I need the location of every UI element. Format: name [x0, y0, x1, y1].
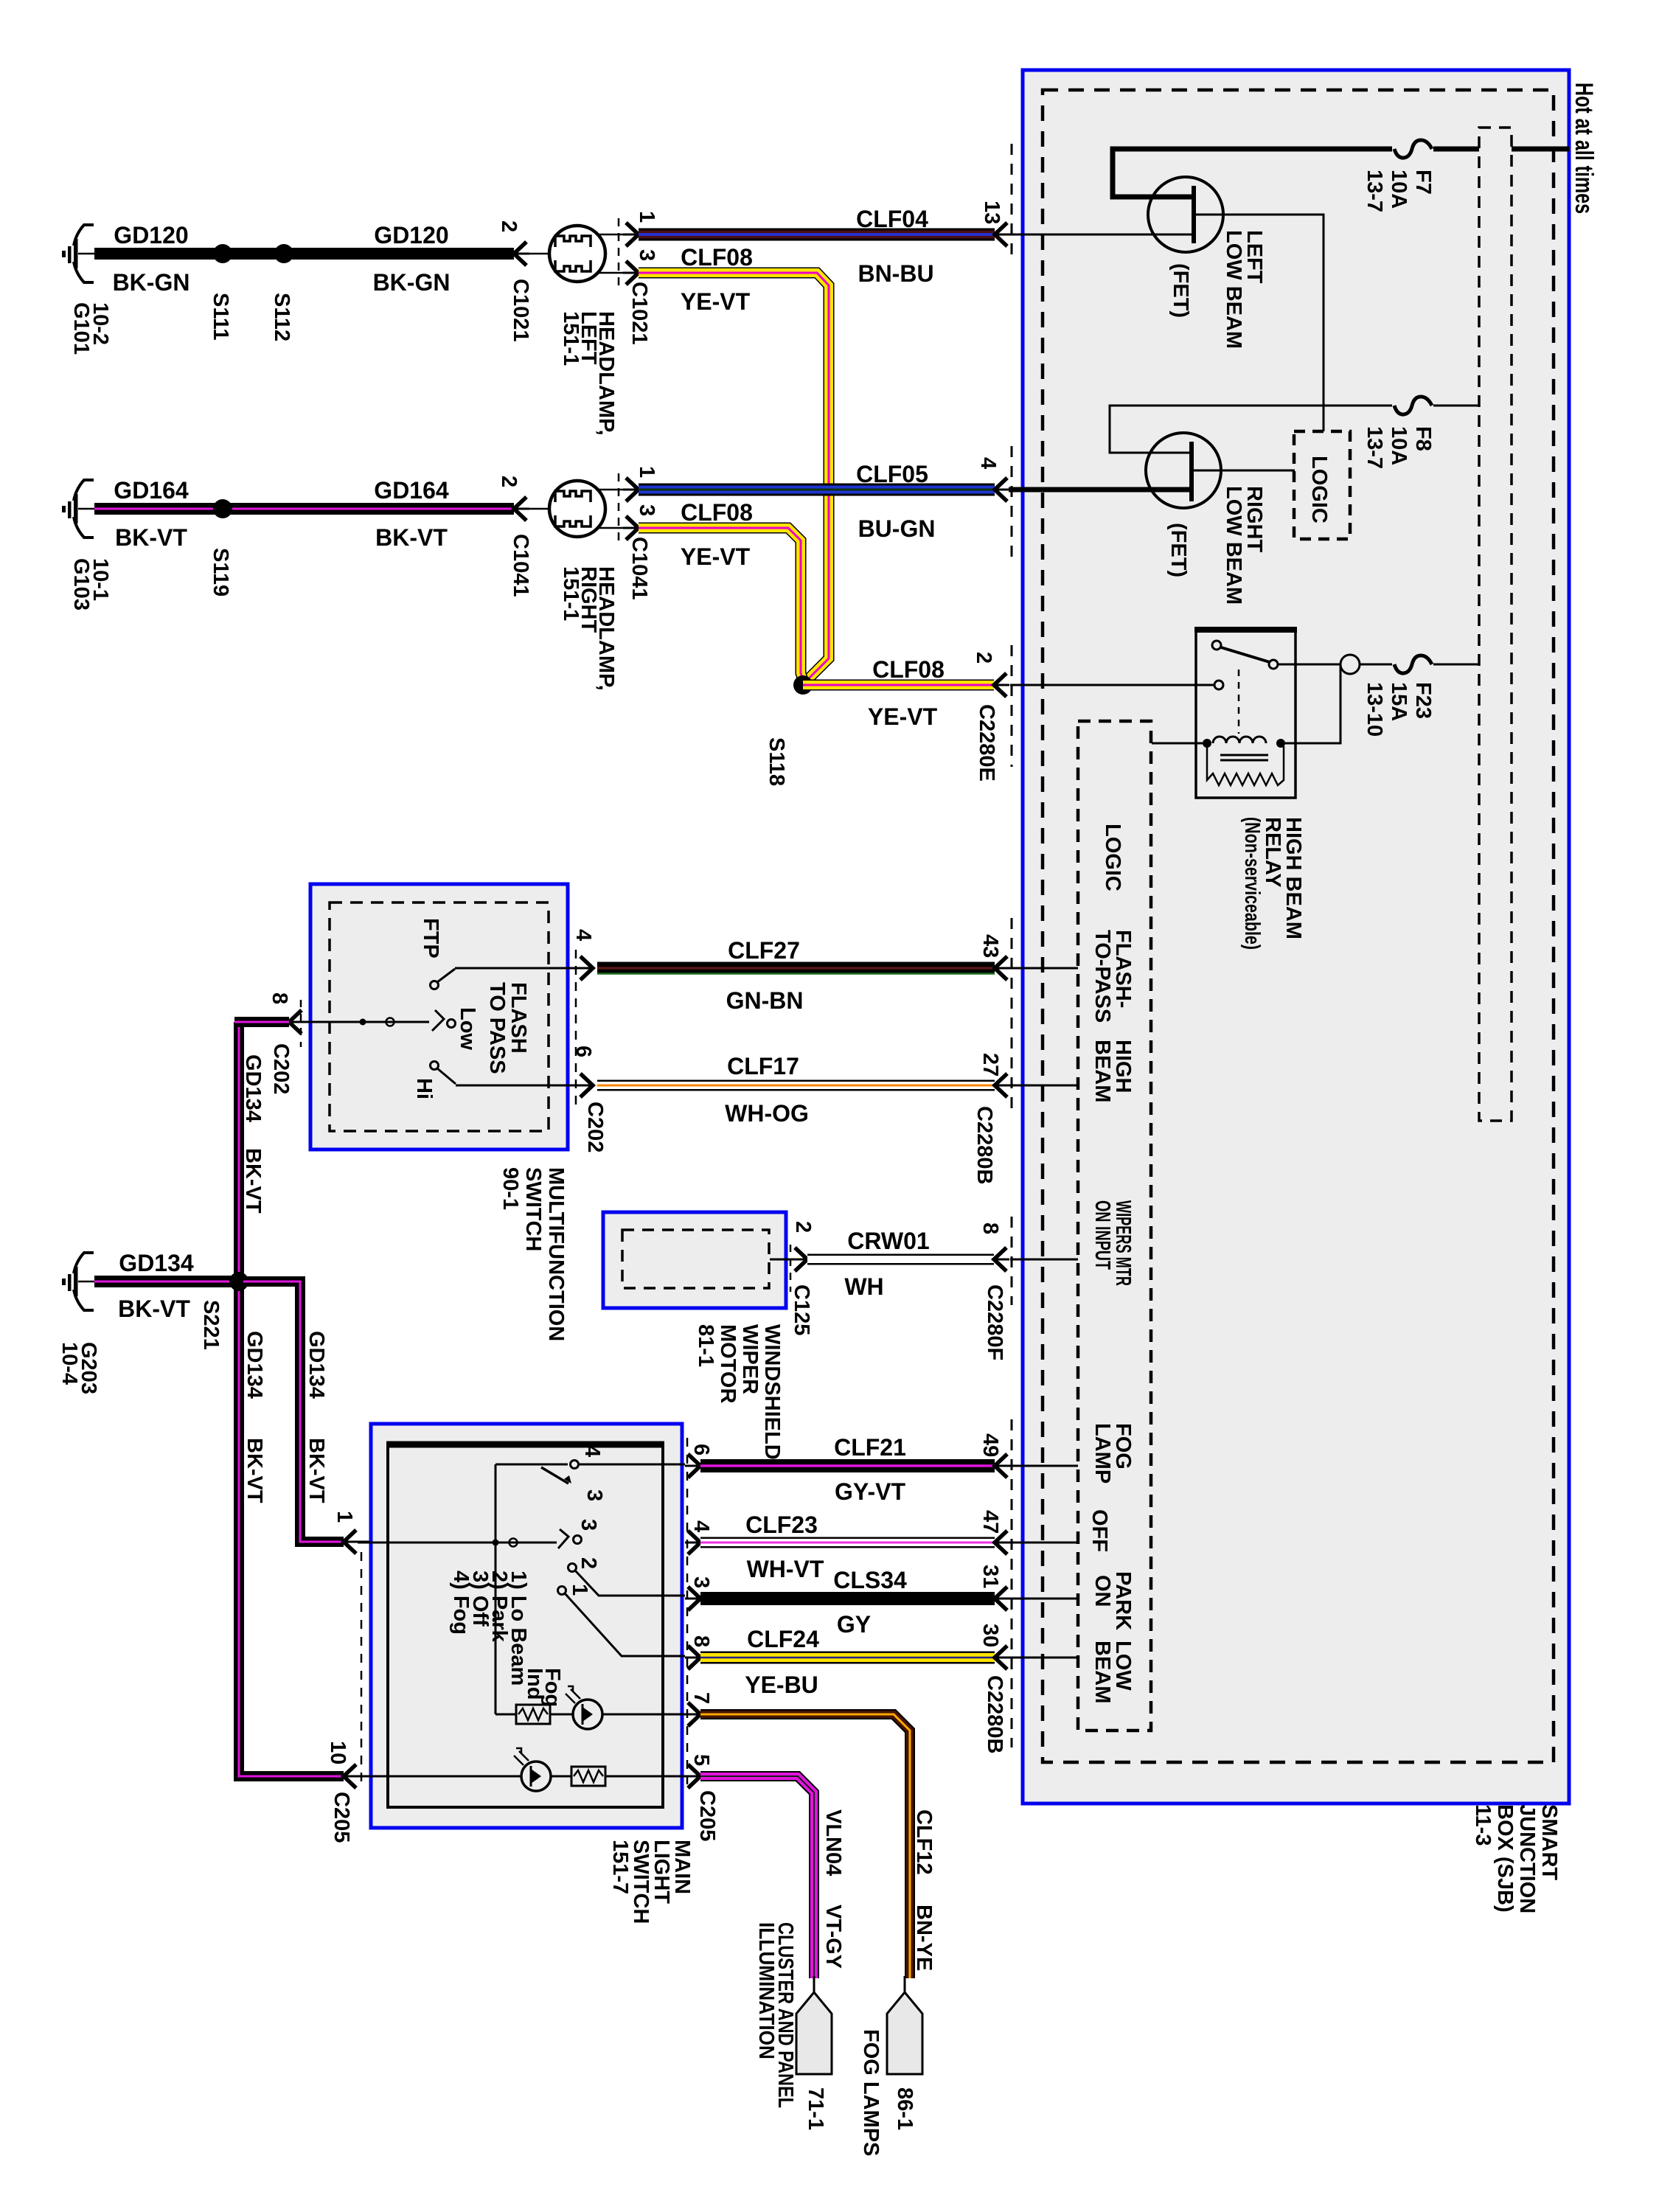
connector arrow main light switch pin 5: [685, 1764, 700, 1788]
svg-text:2: 2: [497, 476, 521, 487]
svg-text:C205: C205: [695, 1790, 719, 1841]
connector cluster and panel illumination: [754, 1922, 832, 2130]
wire CLF21 GY-VT: [700, 1434, 995, 1505]
wire CLF27 GN-BN: [597, 937, 995, 1014]
connector arrow main light switch pin 3: [685, 1587, 700, 1610]
connector arrow multifunction pin 8: [268, 992, 305, 1094]
svg-text:GD120: GD120: [114, 222, 188, 248]
wire CLF24 YE-BU: [700, 1626, 995, 1698]
headlamp right bulb: [549, 466, 658, 691]
svg-text:BN-BU: BN-BU: [858, 260, 933, 287]
svg-text:13-10: 13-10: [1363, 682, 1386, 737]
label SMART JUNCTION BOX (SJB) 11-3: [1471, 1804, 1561, 1913]
multifunction switch common (pin 8): [302, 1007, 479, 1050]
svg-text:10A: 10A: [1387, 426, 1411, 465]
svg-text:3: 3: [689, 1576, 713, 1588]
svg-text:CLF04: CLF04: [856, 206, 928, 232]
svg-text:ON: ON: [1091, 1575, 1114, 1607]
svg-text:Hi: Hi: [412, 1078, 436, 1099]
svg-text:10-1: 10-1: [88, 558, 112, 601]
FTP contact: [419, 918, 580, 990]
svg-text:11-3: 11-3: [1471, 1804, 1495, 1846]
connector arrow headlamp right pin 1: [623, 478, 639, 501]
SJB outer dashed boundary: [1043, 90, 1554, 1762]
splice S221: [199, 1272, 248, 1350]
svg-text:LOGIC: LOGIC: [1101, 824, 1124, 891]
svg-text:27: 27: [978, 1053, 1002, 1077]
svg-text:WH: WH: [844, 1273, 883, 1300]
fuse F8: [1363, 397, 1435, 469]
svg-text:BEAM: BEAM: [1091, 1040, 1114, 1102]
fog switch contact 4: [495, 1445, 685, 1714]
svg-text:LAMP: LAMP: [1091, 1423, 1114, 1484]
svg-text:71-1: 71-1: [804, 2087, 827, 2130]
svg-text:F23: F23: [1411, 682, 1435, 719]
svg-text:151-7: 151-7: [608, 1840, 632, 1894]
connector dashes C205 left: [361, 1552, 363, 1788]
svg-text:WIPER: WIPER: [738, 1324, 762, 1394]
svg-text:JUNCTION: JUNCTION: [1515, 1804, 1539, 1913]
svg-text:CLF24: CLF24: [747, 1626, 819, 1652]
svg-text:15A: 15A: [1387, 682, 1411, 721]
svg-text:CLF23: CLF23: [745, 1512, 818, 1538]
ground G103: [62, 480, 112, 611]
connector arrow headlamp right pin 3: [623, 516, 639, 540]
panel illumination lamp: [358, 1748, 685, 1791]
svg-text:YE-VT: YE-VT: [681, 288, 751, 315]
svg-text:81-1: 81-1: [694, 1324, 717, 1367]
svg-text:10A: 10A: [1387, 170, 1411, 209]
svg-text:8: 8: [268, 992, 291, 1004]
svg-text:CLF17: CLF17: [727, 1053, 799, 1079]
svg-text:LOGIC: LOGIC: [1307, 456, 1331, 524]
svg-text:VLN04: VLN04: [821, 1809, 845, 1876]
svg-text:4: 4: [689, 1520, 713, 1532]
svg-text:ILLUMINATION: ILLUMINATION: [754, 1922, 778, 2059]
logic box tall: [1078, 721, 1151, 1731]
svg-text:C1041: C1041: [509, 534, 532, 597]
svg-text:BK-VT: BK-VT: [241, 1148, 265, 1214]
wires from SJB pins to logic box: [1010, 968, 1078, 1658]
svg-text:C2280F: C2280F: [983, 1284, 1006, 1360]
svg-text:F8: F8: [1411, 426, 1435, 451]
svg-text:1: 1: [635, 466, 658, 478]
svg-text:MOTOR: MOTOR: [716, 1324, 740, 1403]
svg-text:2: 2: [972, 652, 995, 664]
svg-text:GY-VT: GY-VT: [835, 1478, 905, 1505]
svg-text:4: 4: [976, 457, 1000, 469]
wire: F8 feed: [1110, 406, 1479, 453]
connector arrow C1041 pin 2: [497, 476, 549, 597]
svg-text:C1021: C1021: [509, 279, 532, 341]
svg-text:WH-OG: WH-OG: [725, 1100, 809, 1127]
svg-text:4: 4: [580, 1445, 604, 1457]
wire CLF05 BU-GN: [639, 461, 995, 542]
splice S119: [209, 499, 232, 597]
svg-text:1: 1: [635, 211, 658, 223]
svg-text:BOX (SJB): BOX (SJB): [1493, 1804, 1517, 1913]
svg-text:3: 3: [635, 504, 658, 516]
svg-text:CLF12: CLF12: [912, 1809, 936, 1875]
label Hot at all times: [1570, 83, 1598, 214]
splice S111: [209, 244, 232, 341]
svg-text:YE-BU: YE-BU: [745, 1672, 818, 1698]
svg-text:CLF27: CLF27: [728, 937, 800, 964]
wire CLF23 WH-VT: [700, 1512, 995, 1582]
transistor right low beam FET: [1146, 433, 1295, 605]
wire CLF08 YE-VT to C2280E: [803, 656, 994, 730]
connector arrow headlamp left pin 3: [623, 261, 639, 285]
svg-text:4) Fog: 4) Fog: [449, 1571, 473, 1635]
splice S112: [270, 244, 293, 341]
wire GD134 BK-VT branch to main light switch pin 1: [243, 1281, 344, 1542]
svg-text:(Non-serviceable): (Non-serviceable): [1240, 817, 1264, 950]
svg-text:WH-VT: WH-VT: [747, 1556, 824, 1582]
svg-text:GD164: GD164: [114, 477, 189, 504]
svg-text:13: 13: [980, 201, 1004, 224]
svg-text:CLF08: CLF08: [872, 656, 945, 683]
svg-text:BK-VT: BK-VT: [375, 524, 448, 551]
svg-text:(FET): (FET): [1166, 523, 1190, 577]
svg-text:Ind: Ind: [523, 1668, 546, 1700]
SJB internal bus bar (dashed): [1479, 128, 1512, 1121]
svg-text:86-1: 86-1: [893, 2087, 917, 2130]
svg-text:C2280E: C2280E: [975, 704, 998, 782]
svg-text:C125: C125: [790, 1284, 813, 1335]
multifunction switch box: [310, 884, 568, 1341]
svg-text:C202: C202: [583, 1102, 607, 1152]
wire CLF17 WH-OG: [597, 1053, 995, 1127]
connector dashes C205 right: [686, 1438, 689, 1784]
high beam relay box: [1194, 629, 1305, 950]
svg-text:8: 8: [978, 1222, 1002, 1234]
wire CLF12 BN-YE: [700, 1714, 936, 1978]
svg-text:TO PASS: TO PASS: [485, 982, 509, 1074]
svg-text:Low: Low: [456, 1007, 479, 1050]
connector arrow main light switch pin 1: [333, 1511, 388, 1554]
svg-text:GY: GY: [837, 1611, 871, 1638]
svg-text:30: 30: [978, 1624, 1002, 1647]
svg-text:FLASH: FLASH: [507, 982, 530, 1054]
svg-text:C2280B: C2280B: [983, 1675, 1006, 1753]
connector arrow multifunction pin 4: [571, 929, 595, 980]
connector arrow SJB pin 4: [995, 478, 1010, 501]
svg-text:OFF: OFF: [1088, 1509, 1111, 1552]
svg-text:CLF05: CLF05: [856, 461, 928, 487]
connector arrow headlamp left pin 1: [623, 223, 639, 246]
svg-text:6: 6: [689, 1444, 713, 1455]
wire CLF08 YE-VT from right headlamp pin 3: [639, 499, 803, 680]
fuse F23: [1363, 655, 1435, 737]
svg-text:F7: F7: [1411, 170, 1435, 195]
connector arrow main light switch pin 10: [326, 1741, 359, 1843]
svg-text:C202: C202: [269, 1043, 293, 1094]
svg-text:CLF08: CLF08: [681, 499, 753, 526]
wire GD120 BK-GN: [94, 222, 514, 296]
main light switch right pin labels: [689, 1444, 719, 1841]
main light switch box: [371, 1424, 694, 1924]
connector arrow multifunction pin 6: [571, 1046, 607, 1152]
svg-text:7: 7: [689, 1692, 713, 1704]
svg-text:1: 1: [333, 1511, 356, 1523]
Hi contact: [412, 1062, 580, 1100]
svg-text:5: 5: [689, 1754, 713, 1766]
svg-text:GD134: GD134: [305, 1331, 328, 1399]
svg-text:GD120: GD120: [374, 222, 448, 248]
transistor left low beam FET: [1148, 177, 1324, 431]
svg-text:49: 49: [978, 1433, 1002, 1457]
svg-text:GN-BN: GN-BN: [726, 987, 804, 1014]
wire GD134 BK-VT to main light switch pin 10: [239, 1771, 344, 1776]
svg-text:43: 43: [978, 934, 1002, 958]
svg-text:S119: S119: [209, 548, 232, 597]
Smart Junction Box outer blue box: [1023, 70, 1569, 1804]
connector arrow main light switch pin 4: [685, 1531, 700, 1554]
connector arrow main light switch pin 7: [685, 1703, 700, 1726]
wire CLF04 BN-BU: [639, 206, 995, 287]
ground G203: [58, 1253, 100, 1394]
svg-text:WINDSHIELD: WINDSHIELD: [760, 1324, 784, 1460]
svg-text:BK-VT: BK-VT: [305, 1438, 328, 1503]
svg-text:BK-GN: BK-GN: [113, 269, 190, 296]
connector arrow C2280E pin 2: [994, 673, 1009, 697]
svg-text:C205: C205: [330, 1792, 353, 1843]
svg-text:151-1: 151-1: [559, 566, 582, 621]
svg-text:VT-GY: VT-GY: [821, 1905, 845, 1969]
svg-text:10: 10: [326, 1741, 349, 1764]
svg-text:FOG LAMPS: FOG LAMPS: [859, 2029, 883, 2156]
svg-text:TO-PASS: TO-PASS: [1091, 930, 1114, 1023]
svg-text:3: 3: [582, 1489, 606, 1501]
ground G101: [62, 225, 112, 355]
svg-text:13-7: 13-7: [1363, 170, 1386, 212]
splice S118: [765, 675, 813, 786]
wire GD164 BK-VT: [94, 477, 514, 551]
connector arrow main light switch pin 8: [685, 1646, 700, 1669]
connector arrow SJB pin 13: [995, 223, 1010, 246]
svg-text:BEAM: BEAM: [1091, 1641, 1114, 1703]
svg-text:SMART: SMART: [1537, 1804, 1561, 1880]
main switch common contacts: [358, 1519, 685, 1656]
connector fog lamps: [859, 1976, 922, 2156]
svg-text:S111: S111: [209, 293, 232, 341]
connector arrow SJB pin 27: [995, 1074, 1010, 1097]
svg-text:GD164: GD164: [374, 477, 449, 504]
svg-text:S118: S118: [765, 737, 788, 786]
connector arrow SJB pin 43: [995, 956, 1010, 980]
wire CRW01 WH: [807, 1228, 994, 1300]
svg-text:LOW BEAM: LOW BEAM: [1222, 230, 1245, 349]
wire GD134 BK-VT ground run: [94, 1250, 239, 1322]
SJB pin number and connector labels: [972, 201, 1006, 1753]
svg-text:GD134: GD134: [119, 1250, 194, 1276]
fuse F7: [1363, 140, 1435, 212]
svg-text:GD134: GD134: [243, 1331, 266, 1399]
svg-text:8: 8: [689, 1635, 713, 1647]
svg-text:C1041: C1041: [627, 537, 651, 599]
svg-text:6: 6: [571, 1046, 595, 1057]
connector arrow SJB pin 49: [995, 1454, 1010, 1478]
wire: relay coil to logic: [1152, 742, 1203, 745]
svg-text:BK-VT: BK-VT: [118, 1295, 190, 1322]
wire VLN04 VT-GY: [700, 1776, 845, 1978]
svg-text:LOW BEAM: LOW BEAM: [1222, 486, 1245, 605]
svg-text:SWITCH: SWITCH: [521, 1167, 545, 1251]
svg-text:2: 2: [577, 1557, 600, 1569]
svg-text:Hot at all times: Hot at all times: [1570, 83, 1598, 214]
svg-text:BN-YE: BN-YE: [912, 1905, 936, 1971]
svg-text:FTP: FTP: [419, 918, 442, 959]
svg-text:BK-GN: BK-GN: [373, 269, 451, 296]
logic box small: [1294, 431, 1350, 539]
wire: battery feed to F7 (hot at all times): [1113, 149, 1569, 197]
wire GD134 BK-VT trunk vertical: [239, 1022, 266, 1776]
svg-text:151-1: 151-1: [559, 311, 582, 366]
svg-text:13-7: 13-7: [1363, 426, 1386, 469]
connector arrow SJB pin 8 C2280F: [994, 1248, 1009, 1271]
svg-text:C1021: C1021: [627, 282, 651, 344]
svg-text:CLS34: CLS34: [833, 1567, 907, 1593]
svg-text:BU-GN: BU-GN: [858, 515, 936, 542]
svg-text:3: 3: [577, 1519, 600, 1531]
svg-text:C2280B: C2280B: [973, 1106, 996, 1184]
wire CLF08 YE-VT from left headlamp pin 3: [639, 244, 829, 684]
svg-text:S112: S112: [270, 293, 293, 341]
svg-text:BK-VT: BK-VT: [243, 1438, 266, 1503]
connector dashes C202: [301, 950, 576, 1106]
svg-text:BK-VT: BK-VT: [115, 524, 187, 551]
wire CLS34 GY: [700, 1567, 995, 1638]
wire: FET1 output to pin 13: [1009, 234, 1193, 236]
svg-text:ON INPUT: ON INPUT: [1091, 1200, 1114, 1270]
svg-text:4: 4: [571, 929, 595, 941]
connector arrow SJB pin 31: [995, 1587, 1010, 1610]
svg-text:90-1: 90-1: [498, 1167, 522, 1210]
svg-text:MULTIFUNCTION: MULTIFUNCTION: [544, 1167, 568, 1341]
svg-text:GD134: GD134: [241, 1054, 265, 1122]
headlamp left bulb: [549, 211, 658, 436]
connector arrow main light switch pin 6: [685, 1454, 700, 1478]
svg-text:YE-VT: YE-VT: [681, 543, 751, 570]
svg-text:10-2: 10-2: [88, 302, 112, 345]
svg-text:2: 2: [497, 220, 521, 232]
svg-text:CLF08: CLF08: [681, 244, 753, 271]
connector arrow wiper pin 2: [770, 1221, 815, 1335]
connector face dashed line C2280: [1011, 144, 1013, 1747]
svg-text:CLF21: CLF21: [834, 1434, 906, 1461]
wire: relay switch to C2280E pin 2: [1010, 684, 1214, 686]
fog indicator: [495, 1668, 685, 1729]
main light switch position list: [449, 1571, 530, 1686]
svg-text:2: 2: [791, 1221, 815, 1233]
svg-text:10-4: 10-4: [58, 1342, 81, 1385]
svg-text:31: 31: [978, 1565, 1002, 1588]
wire: relay switch feed through F23 to bus: [1278, 655, 1479, 743]
wire: FET2 output to pin 4: [1009, 487, 1191, 493]
svg-text:(FET): (FET): [1169, 263, 1192, 318]
svg-text:47: 47: [978, 1510, 1002, 1534]
connector arrow SJB pin 47: [995, 1531, 1010, 1554]
svg-text:S221: S221: [199, 1300, 223, 1350]
svg-text:YE-VT: YE-VT: [868, 703, 938, 730]
connector arrow C1021 pin 2: [497, 220, 549, 341]
svg-text:CRW01: CRW01: [847, 1228, 929, 1254]
connector arrow SJB pin 30: [995, 1646, 1010, 1669]
svg-text:3: 3: [635, 249, 658, 261]
wire GD134 BK-VT to multifunction pin 8: [234, 1017, 289, 1027]
windshield wiper motor box: [603, 1212, 786, 1460]
